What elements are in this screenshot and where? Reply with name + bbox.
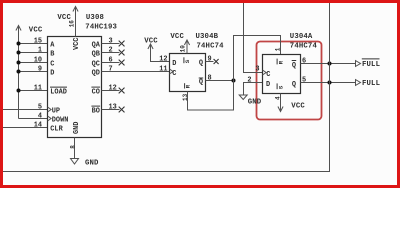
svg-text:VCC: VCC [29,27,43,35]
svg-text:14: 14 [34,122,42,130]
svg-text:S: S [277,85,284,89]
svg-text:2: 2 [247,77,251,85]
svg-text:LOAD: LOAD [50,89,67,97]
svg-text:QB: QB [92,51,100,59]
svg-text:QD: QD [92,70,100,78]
svg-text:VCC: VCC [170,33,184,41]
svg-text:R: R [184,84,191,88]
svg-text:UP: UP [52,108,60,116]
svg-text:U308: U308 [86,14,104,22]
svg-text:VCC: VCC [291,102,305,110]
svg-text:GND: GND [73,122,81,134]
svg-text:FULL: FULL [362,61,380,69]
svg-text:CLR: CLR [50,126,63,134]
svg-text:8: 8 [69,145,76,149]
svg-text:10: 10 [179,45,186,53]
svg-text:R: R [277,60,284,64]
svg-text:GND: GND [248,99,262,107]
svg-text:5: 5 [38,104,42,112]
svg-text:4: 4 [38,113,42,121]
svg-text:10: 10 [34,57,42,65]
svg-text:DOWN: DOWN [52,117,69,125]
svg-text:7: 7 [109,66,113,74]
svg-text:2: 2 [109,47,113,55]
svg-text:9: 9 [38,66,42,74]
svg-text:VCC: VCC [144,38,158,46]
svg-text:11: 11 [34,85,42,93]
svg-text:Q: Q [292,81,296,89]
svg-text:16: 16 [69,20,76,28]
svg-text:U304A: U304A [290,33,313,41]
svg-text:11: 11 [159,66,167,74]
svg-text:6: 6 [302,58,306,66]
svg-text:QC: QC [92,61,100,69]
svg-text:74HC193: 74HC193 [85,24,117,32]
svg-text:FULL: FULL [362,80,380,88]
svg-text:13: 13 [182,93,189,101]
svg-text:B: B [50,51,54,59]
svg-text:C: C [266,71,270,79]
svg-text:6: 6 [109,57,113,65]
svg-text:U304B: U304B [196,33,219,41]
svg-text:1: 1 [38,47,42,55]
svg-text:S: S [184,59,191,63]
svg-text:D: D [266,81,270,89]
svg-text:QA: QA [92,42,101,50]
svg-text:GND: GND [85,159,99,167]
svg-text:3: 3 [255,66,259,74]
svg-text:D: D [172,60,176,68]
svg-text:Q: Q [199,79,203,87]
svg-text:CO: CO [92,89,100,97]
svg-text:9: 9 [208,56,212,64]
svg-text:Q: Q [199,60,203,68]
svg-text:C: C [172,70,176,78]
svg-text:BO: BO [92,108,100,116]
svg-text:74HC74: 74HC74 [197,42,225,50]
svg-text:15: 15 [34,38,42,46]
svg-text:12: 12 [159,56,167,64]
svg-text:13: 13 [109,104,117,112]
svg-text:4: 4 [274,96,281,100]
svg-text:VCC: VCC [73,38,81,50]
svg-text:5: 5 [302,77,306,85]
svg-text:8: 8 [208,75,212,83]
svg-text:3: 3 [109,38,113,46]
svg-text:12: 12 [109,85,117,93]
svg-text:D: D [50,70,54,78]
svg-text:C: C [50,61,54,69]
svg-text:74HC74: 74HC74 [290,42,318,50]
svg-text:Q: Q [292,62,296,70]
svg-text:1: 1 [274,47,281,51]
